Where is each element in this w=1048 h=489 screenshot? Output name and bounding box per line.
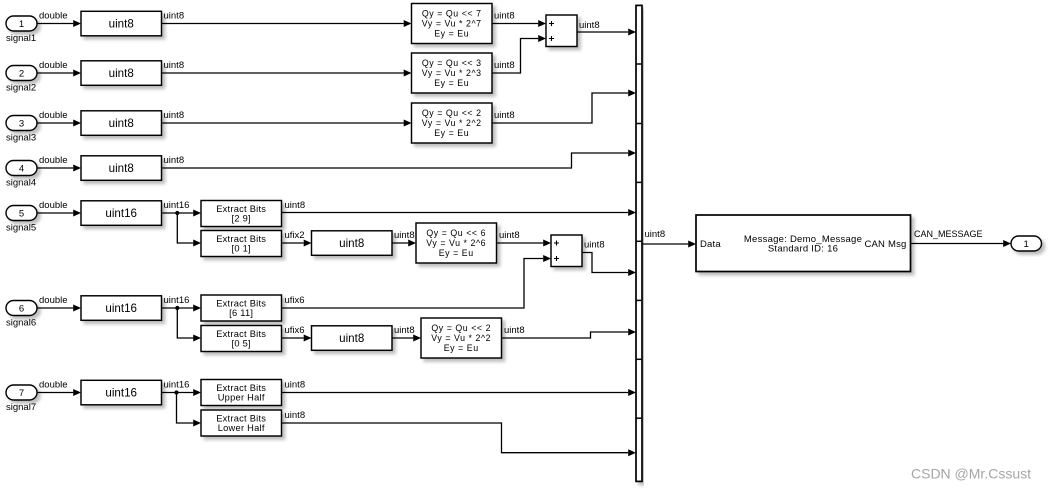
svg-text:uint8: uint8 bbox=[584, 240, 605, 251]
svg-text:Qy = Qu << 3: Qy = Qu << 3 bbox=[422, 58, 482, 68]
svg-text:[0 5]: [0 5] bbox=[232, 339, 251, 349]
svg-text:signal5: signal5 bbox=[6, 223, 36, 234]
svg-text:uint8: uint8 bbox=[109, 117, 134, 130]
sum block Sum1 bbox=[546, 15, 577, 47]
CAN Pack block U_CANPack bbox=[696, 215, 911, 272]
svg-text:uint8: uint8 bbox=[164, 155, 185, 166]
svg-text:ufix6: ufix6 bbox=[285, 295, 305, 306]
svg-text:uint8: uint8 bbox=[164, 110, 185, 121]
data type conversion block uint8 bbox=[81, 111, 162, 136]
svg-text:signal3: signal3 bbox=[6, 133, 36, 144]
wire sum1 to mux bbox=[577, 31, 628, 33]
wire conversion1 to shift block bbox=[162, 23, 404, 25]
svg-text:uint8: uint8 bbox=[164, 60, 185, 71]
svg-text:signal2: signal2 bbox=[6, 83, 36, 94]
wire extract[0 5] to uint8 conversion bbox=[282, 337, 304, 339]
data type conversion block uint8 bbox=[81, 61, 162, 86]
input port 2 (signal2) bbox=[6, 66, 37, 81]
junction node row7 bbox=[174, 390, 178, 394]
svg-text:[2 9]: [2 9] bbox=[232, 214, 251, 224]
svg-text:CAN_MESSAGE: CAN_MESSAGE bbox=[914, 229, 983, 239]
input port 7 (signal7) bbox=[6, 385, 37, 400]
svg-text:uint8: uint8 bbox=[109, 67, 134, 80]
svg-text:uint8: uint8 bbox=[579, 20, 600, 31]
wire port4 to conversion bbox=[37, 167, 73, 169]
svg-text:Ey = Eu: Ey = Eu bbox=[434, 29, 469, 39]
shift arithmetic block Q2 bbox=[412, 53, 493, 93]
wire port6 to conversion bbox=[37, 307, 73, 309]
wire mux to CAN pack bbox=[642, 243, 688, 245]
svg-text:Vy = Vu * 2^2: Vy = Vu * 2^2 bbox=[431, 333, 491, 343]
svg-text:Standard ID: 16: Standard ID: 16 bbox=[768, 243, 838, 254]
wire to shift block Q4 bbox=[392, 242, 409, 244]
wire Q1 to sum1 bbox=[492, 23, 538, 25]
svg-text:1: 1 bbox=[1024, 239, 1029, 250]
wire port5 to conversion bbox=[37, 212, 73, 214]
svg-text:uint16: uint16 bbox=[105, 302, 137, 315]
svg-text:signal6: signal6 bbox=[6, 318, 36, 329]
wire conversion3 to shift block bbox=[162, 122, 404, 124]
svg-text:Upper Half: Upper Half bbox=[218, 393, 265, 403]
wire extract[6 11] to sum2 bbox=[282, 259, 544, 309]
svg-text:2: 2 bbox=[19, 68, 24, 79]
wire extract upper to mux bbox=[282, 392, 629, 394]
svg-text:ufix2: ufix2 bbox=[285, 230, 305, 241]
svg-text:Ey = Eu: Ey = Eu bbox=[434, 128, 469, 138]
svg-text:Lower Half: Lower Half bbox=[218, 423, 265, 433]
input port 1 (signal1) bbox=[6, 16, 37, 31]
svg-text:Vy = Vu * 2^3: Vy = Vu * 2^3 bbox=[422, 68, 482, 78]
svg-text:uint8: uint8 bbox=[504, 325, 525, 336]
svg-text:double: double bbox=[39, 380, 68, 391]
sum block Sum2 bbox=[551, 235, 582, 267]
wire Q2 to sum1 bbox=[492, 39, 538, 74]
svg-text:signal7: signal7 bbox=[6, 402, 36, 413]
svg-text:uint16: uint16 bbox=[164, 200, 190, 211]
svg-text:3: 3 bbox=[19, 118, 24, 129]
wire Q4 to sum2 bbox=[497, 242, 544, 244]
svg-text:Ey = Eu: Ey = Eu bbox=[434, 78, 469, 88]
branch wire to extract [0 5] bbox=[177, 308, 193, 338]
extract bits block: Upper Half bbox=[201, 380, 282, 406]
input port 4 (signal4) bbox=[6, 161, 37, 176]
wire conversion7 to extract blocks bbox=[162, 392, 194, 394]
input port 3 (signal3) bbox=[6, 116, 37, 131]
svg-text:double: double bbox=[39, 200, 68, 211]
wire conversion6 to extract blocks bbox=[162, 307, 194, 309]
wire CAN pack to output port bbox=[911, 243, 1004, 245]
svg-text:[6 11]: [6 11] bbox=[229, 308, 253, 318]
svg-text:double: double bbox=[39, 295, 68, 306]
svg-text:7: 7 bbox=[19, 388, 24, 399]
wire extract[2 9] to mux bbox=[282, 212, 629, 214]
svg-text:CSDN @Mr.Cssust: CSDN @Mr.Cssust bbox=[911, 466, 1031, 482]
wire conversion4 to mux bbox=[162, 153, 629, 168]
svg-text:uint8: uint8 bbox=[339, 237, 364, 250]
mux (bus) bar bbox=[636, 5, 642, 481]
extract bits block: [0 5] bbox=[201, 326, 282, 352]
svg-text:Qy = Qu << 6: Qy = Qu << 6 bbox=[426, 228, 486, 238]
wire conversion2 to shift block bbox=[162, 72, 404, 74]
extract bits block: Lower Half bbox=[201, 410, 282, 436]
svg-text:uint16: uint16 bbox=[164, 295, 190, 306]
svg-text:CAN Msg: CAN Msg bbox=[864, 239, 906, 250]
shift arithmetic block Q3 bbox=[412, 103, 493, 143]
svg-text:1: 1 bbox=[19, 19, 24, 30]
shift arithmetic block Q4 bbox=[416, 223, 497, 263]
wire extract lower to mux bbox=[282, 423, 629, 453]
svg-text:uint8: uint8 bbox=[494, 60, 515, 71]
input port 6 (signal6) bbox=[6, 301, 37, 316]
svg-text:uint8: uint8 bbox=[339, 332, 364, 345]
wire extract[0 1] to uint8 conversion bbox=[282, 242, 304, 244]
wire Q5 to mux bbox=[502, 332, 629, 338]
svg-text:Data: Data bbox=[700, 239, 721, 250]
svg-text:signal1: signal1 bbox=[6, 33, 36, 44]
wire port3 to conversion bbox=[37, 122, 73, 124]
svg-text:uint8: uint8 bbox=[494, 11, 515, 22]
svg-text:double: double bbox=[39, 11, 68, 22]
branch wire to extract [0 1] bbox=[177, 213, 193, 243]
data type conversion block uint8 bbox=[312, 326, 393, 351]
wire to shift block Q5 bbox=[392, 337, 414, 339]
data type conversion block uint8 bbox=[81, 156, 162, 181]
wire conversion5 to extract blocks bbox=[162, 212, 194, 214]
svg-text:uint16: uint16 bbox=[164, 380, 190, 391]
extract bits block: [6 11] bbox=[201, 295, 282, 321]
svg-text:Vy = Vu * 2^6: Vy = Vu * 2^6 bbox=[426, 238, 486, 248]
svg-text:6: 6 bbox=[19, 303, 24, 314]
input port 5 (signal5) bbox=[6, 206, 37, 221]
data type conversion block uint16 bbox=[81, 201, 162, 226]
svg-text:double: double bbox=[39, 60, 68, 71]
data type conversion block uint8 bbox=[81, 11, 162, 36]
svg-text:Qy = Qu << 2: Qy = Qu << 2 bbox=[431, 323, 491, 333]
svg-text:Ey = Eu: Ey = Eu bbox=[439, 248, 474, 258]
svg-text:uint8: uint8 bbox=[394, 230, 415, 241]
extract bits block: [0 1] bbox=[201, 231, 282, 257]
wire Q3 to mux bbox=[492, 93, 628, 123]
shift arithmetic block Q1 bbox=[412, 4, 493, 44]
svg-text:double: double bbox=[39, 110, 68, 121]
wire port7 to conversion bbox=[37, 392, 73, 394]
svg-text:uint8: uint8 bbox=[109, 162, 134, 175]
wire port2 to conversion bbox=[37, 72, 73, 74]
svg-text:uint8: uint8 bbox=[499, 230, 520, 241]
svg-text:Qy = Qu << 2: Qy = Qu << 2 bbox=[422, 108, 482, 118]
branch wire to extract lower half bbox=[177, 393, 194, 424]
svg-text:ufix6: ufix6 bbox=[285, 325, 305, 336]
data type conversion block uint8 bbox=[312, 231, 393, 256]
data type conversion block uint16 bbox=[81, 296, 162, 321]
svg-text:uint8: uint8 bbox=[645, 229, 666, 240]
svg-text:signal4: signal4 bbox=[6, 178, 36, 189]
data type conversion block uint16 bbox=[81, 380, 162, 405]
extract bits block: [2 9] bbox=[201, 201, 282, 227]
svg-text:uint8: uint8 bbox=[394, 325, 415, 336]
svg-text:uint8: uint8 bbox=[164, 11, 185, 22]
svg-text:Qy = Qu << 7: Qy = Qu << 7 bbox=[422, 9, 482, 19]
output port 1 (CAN_MESSAGE) bbox=[1011, 236, 1042, 251]
svg-text:Vy = Vu * 2^2: Vy = Vu * 2^2 bbox=[422, 118, 482, 128]
svg-text:uint8: uint8 bbox=[285, 380, 306, 391]
svg-text:double: double bbox=[39, 155, 68, 166]
junction node row6 bbox=[175, 306, 179, 310]
svg-text:uint8: uint8 bbox=[285, 410, 306, 421]
junction node row5 bbox=[175, 211, 179, 215]
svg-text:Ey = Eu: Ey = Eu bbox=[444, 343, 479, 353]
wire sum2 to mux bbox=[582, 253, 629, 273]
svg-text:uint16: uint16 bbox=[105, 387, 137, 400]
svg-text:uint8: uint8 bbox=[109, 18, 134, 31]
svg-text:uint8: uint8 bbox=[494, 110, 515, 121]
svg-text:5: 5 bbox=[19, 208, 24, 219]
svg-text:uint16: uint16 bbox=[105, 207, 137, 220]
svg-text:4: 4 bbox=[19, 163, 24, 174]
svg-text:[0 1]: [0 1] bbox=[232, 244, 251, 254]
shift arithmetic block Q5 bbox=[421, 318, 502, 358]
svg-text:uint8: uint8 bbox=[285, 200, 306, 211]
svg-text:Vy = Vu * 2^7: Vy = Vu * 2^7 bbox=[422, 19, 482, 29]
wire port1 to conversion bbox=[37, 23, 73, 25]
